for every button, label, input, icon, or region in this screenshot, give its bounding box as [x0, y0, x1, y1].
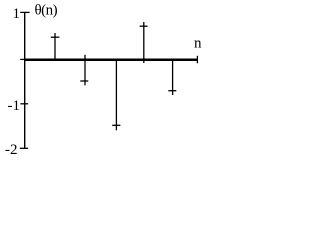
svg-text:-2: -2	[5, 142, 18, 158]
svg-text:n: n	[194, 36, 202, 52]
svg-text:1: 1	[13, 6, 21, 22]
svg-text:-1: -1	[8, 98, 21, 114]
svg-text:θ(n): θ(n)	[35, 2, 58, 18]
